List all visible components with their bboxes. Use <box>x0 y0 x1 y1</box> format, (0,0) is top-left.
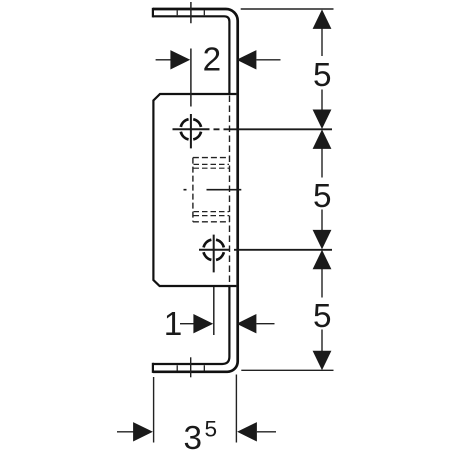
top flange left end cap <box>152 8 154 18</box>
svg-text:2: 2 <box>203 42 222 79</box>
main plate outline <box>153 94 236 286</box>
right chain: arrow down to 370 <box>313 351 332 371</box>
dimension 1: left arrow <box>193 314 213 333</box>
dimension 1: right arrow <box>237 314 257 333</box>
hidden slot rectangle (dashed) <box>193 158 230 222</box>
dimension 1: tail left <box>180 323 195 325</box>
bracket outer contour (top flange top, web right face, foot bottom) <box>153 9 238 372</box>
foot centerline <box>190 357 192 377</box>
right chain: arrow up from 129 <box>313 129 332 149</box>
hole H1 circle arcs <box>181 119 201 139</box>
bottom dimension: left arrow <box>133 422 153 441</box>
hole H2 crosshair <box>199 235 230 273</box>
web inner line lower part + foot top line <box>153 286 230 364</box>
dimension 2: left arrow <box>170 50 190 69</box>
bottom dimension: right extension line <box>235 375 237 443</box>
svg-text:3: 3 <box>184 420 203 450</box>
right chain: arrow down to 129 <box>313 110 332 130</box>
dimension 2: right arrow <box>237 50 257 69</box>
hole H2 vertical extension line down <box>213 287 215 335</box>
top flange tick marks <box>177 10 204 15</box>
dimension 2: tail left <box>156 59 172 61</box>
hole H2 circle arcs <box>204 240 224 260</box>
right chain: top extension line <box>241 8 334 10</box>
slot inner dashed lines bottom pair <box>194 212 230 216</box>
slot inner dashed lines top pair <box>194 164 230 168</box>
vertical centerline through top flange and plate <box>190 2 192 107</box>
hole H2 centerline extension to dimension <box>234 249 332 251</box>
right chain: dimension line segments <box>321 28 323 352</box>
dimension 1: tail right <box>256 323 274 325</box>
right chain: bottom extension line <box>241 369 333 371</box>
right chain: arrow up from 249.5 <box>313 250 332 269</box>
bottom dimension: right tail <box>257 431 276 433</box>
foot tick marks <box>177 365 204 370</box>
svg-text:5: 5 <box>313 178 332 215</box>
svg-text:1: 1 <box>164 306 183 343</box>
svg-text:5: 5 <box>313 298 332 335</box>
slot horizontal centerline <box>184 189 242 191</box>
hole H1 centerline extension to dimension <box>214 128 333 130</box>
hole H1 crosshair <box>173 114 210 148</box>
right chain: arrow up at top <box>313 9 332 29</box>
dimension 2: tail right <box>256 59 280 61</box>
top flange inner line <box>153 16 230 94</box>
right chain: arrow down to 249.5 <box>313 230 332 250</box>
hidden bend line (dashed) behind plate <box>229 96 231 286</box>
bottom dimension: left tail <box>117 431 134 433</box>
bottom dimension: right arrow <box>237 422 257 441</box>
bottom dimension: left extension line <box>153 377 155 443</box>
svg-text:5: 5 <box>313 57 332 94</box>
svg-text:5: 5 <box>205 417 218 442</box>
foot left end cap <box>152 363 154 373</box>
